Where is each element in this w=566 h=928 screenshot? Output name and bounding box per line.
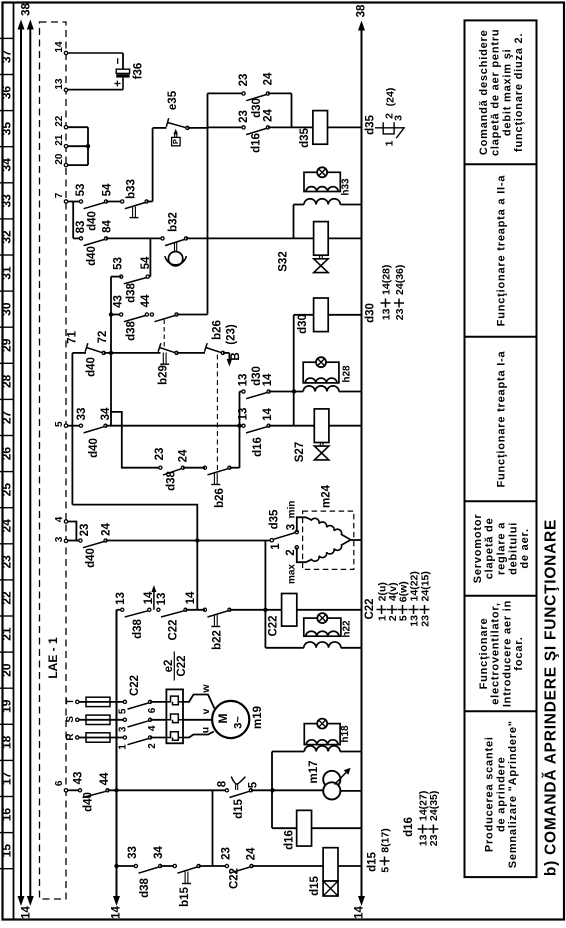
wire tap down to d38 53-54 [149, 238, 151, 276]
svg-text:de aer.: de aer. [519, 528, 531, 568]
svg-text:5: 5 [117, 708, 128, 714]
svg-text:d16: d16 [403, 817, 415, 837]
svg-text:24: 24 [101, 523, 113, 536]
svg-text:funcţionare diuza 2.: funcţionare diuza 2. [513, 33, 525, 152]
wire b33 to node [147, 201, 153, 203]
overload heater element [166, 732, 178, 741]
capacitor f36 [116, 69, 129, 73]
svg-text:37: 37 [0, 49, 14, 63]
overload heater element [166, 714, 178, 723]
servomotor winding lower [306, 540, 350, 562]
wire C22-14 to b22 [186, 609, 205, 611]
valve symbol S32 [319, 255, 321, 259]
svg-text:20: 20 [54, 153, 65, 165]
svg-text:3: 3 [392, 115, 404, 121]
svg-text:53: 53 [75, 184, 87, 197]
overload heater element [166, 696, 178, 705]
svg-text:clapetă de: clapetă de [484, 517, 496, 579]
wire f36 to terminal 13 [122, 78, 124, 90]
wire h33 to rail [340, 204, 361, 206]
riser d15rung-b15rung [212, 790, 214, 866]
valve symbol S27 [319, 443, 321, 447]
svg-text:13: 13 [380, 308, 392, 320]
contact d40 71-72 NC [102, 351, 105, 354]
description box divider [465, 500, 537, 502]
svg-text:LAE - 1: LAE - 1 [46, 637, 60, 679]
svg-text:13: 13 [115, 592, 127, 605]
svg-text:33: 33 [0, 194, 14, 208]
svg-text:S32: S32 [278, 251, 290, 271]
svg-text:b26: b26 [212, 320, 224, 340]
svg-text:44: 44 [99, 772, 111, 785]
time-delay contact d15 8-5 [225, 789, 228, 792]
contact d40 83-84 [79, 237, 82, 240]
arrow stub to line 14 [153, 591, 155, 610]
wire terminal 7 to contact d40 [68, 201, 81, 203]
svg-text:8: 8 [217, 780, 229, 787]
fuse phase S [79, 719, 86, 721]
relay coil d16 [297, 810, 312, 846]
svg-text:w: w [200, 684, 212, 694]
signal lamp unit h18 [304, 746, 340, 752]
wire d38 54 corner [148, 276, 151, 278]
wire terminal 3 to d40 23 [68, 540, 81, 542]
svg-text:h28: h28 [342, 365, 353, 383]
svg-text:5: 5 [379, 867, 391, 873]
svg-text:Servomotor: Servomotor [472, 514, 484, 584]
LAE-1 control unit dashed box [40, 22, 67, 899]
fuse phase R [79, 737, 86, 739]
svg-text:14: 14 [54, 41, 65, 53]
relay coil d35 [313, 111, 328, 145]
solenoid coil S32 [314, 222, 329, 256]
svg-text:23: 23 [428, 834, 440, 846]
svg-text:7: 7 [54, 192, 65, 198]
wire jog from bus to d38 23 [111, 412, 160, 468]
svg-text:h18: h18 [340, 725, 351, 743]
wire terminal 5 to d40 33 [68, 425, 81, 427]
pressure actuator link with arrow [174, 133, 176, 138]
contact b26 section 1 NC [221, 351, 224, 354]
svg-text:3: 3 [285, 524, 297, 530]
LAE-1 terminal 20 [64, 163, 67, 166]
svg-text:Introducere aer in: Introducere aer in [501, 600, 513, 707]
wire terminal 14 to f36 [68, 52, 123, 54]
svg-text:debit maxim şi: debit maxim şi [501, 48, 513, 136]
description box divider [465, 163, 537, 165]
svg-text:83: 83 [75, 221, 87, 234]
phase S supply terminal [76, 718, 79, 721]
svg-text:d40: d40 [86, 357, 98, 377]
contact d40 33-34 [79, 424, 82, 427]
svg-text:71: 71 [67, 331, 79, 344]
svg-text:24: 24 [262, 72, 274, 85]
svg-text:b32: b32 [168, 212, 180, 232]
svg-text:24: 24 [0, 519, 14, 533]
svg-text:84: 84 [102, 220, 114, 233]
svg-text:31: 31 [0, 266, 14, 280]
label e2/C22 fraction [173, 652, 175, 681]
LAE-1 terminal 6 [64, 789, 67, 792]
signal lamp unit h22 [304, 642, 341, 648]
svg-text:23: 23 [238, 110, 250, 123]
svg-text:b22: b22 [212, 630, 224, 650]
rail line L2 (columns 14-38) [29, 28, 31, 898]
wire b26 to riser [229, 467, 239, 469]
wire S27 to rail [329, 425, 362, 427]
wire e35 rung left [153, 127, 167, 129]
svg-text:(23): (23) [226, 324, 238, 345]
svg-text:26: 26 [0, 447, 14, 461]
wire to overload phase R [150, 737, 166, 739]
svg-text:3: 3 [117, 726, 128, 732]
contact b29 NC [175, 351, 178, 354]
svg-text:22: 22 [0, 591, 14, 605]
contact C22 23-24 [225, 864, 228, 867]
rail N (right return rail, 38 top / 14 bottom) [361, 26, 363, 898]
wire e35 to bus [187, 127, 208, 129]
wire h33 connector [293, 205, 295, 239]
svg-text:36: 36 [0, 86, 14, 100]
svg-text:d30: d30 [297, 314, 309, 334]
svg-text:44: 44 [140, 294, 152, 307]
svg-text:21: 21 [54, 134, 65, 146]
svg-text:B: B [230, 352, 242, 360]
fuse phase T [79, 701, 86, 703]
bus riser d30 coil - h28 - S27 [293, 315, 295, 426]
svg-text:4: 4 [147, 725, 158, 731]
LAE-1 terminal 7 [64, 200, 67, 203]
svg-text:v: v [200, 708, 212, 714]
svg-text:32: 32 [0, 230, 14, 244]
wire to d30 coil [294, 314, 314, 316]
contact d38 13-14 [121, 608, 124, 611]
svg-text:u: u [199, 727, 211, 733]
LAE-1 terminal 3 [64, 539, 67, 542]
svg-text:23: 23 [0, 555, 14, 569]
svg-text:5: 5 [248, 781, 260, 788]
svg-text:b) COMANDĂ APRINDERE ŞI FUNCŢI: b) COMANDĂ APRINDERE ŞI FUNCŢIONARE [543, 519, 560, 876]
wire d38 24 to b26 [183, 467, 205, 469]
svg-text:34: 34 [100, 407, 112, 420]
description box divider [465, 595, 537, 597]
wire branch y=504 [72, 505, 197, 610]
svg-text:3: 3 [54, 536, 65, 542]
svg-text:54: 54 [140, 256, 152, 269]
changeover contact d35 1-2-3 [270, 539, 273, 542]
svg-text:d40: d40 [85, 548, 97, 568]
wire d35-3 into winding [297, 517, 306, 532]
svg-text:b15: b15 [179, 886, 191, 906]
svg-text:53: 53 [112, 257, 124, 270]
svg-text:13: 13 [238, 408, 250, 421]
wire d30 23-24 rung [208, 92, 244, 94]
svg-text:P: P [171, 139, 180, 144]
wire d15 coil to rail [338, 865, 362, 867]
pressure sensor box P of e35 [172, 137, 181, 145]
wire d30 coil to rail [328, 314, 361, 316]
svg-text:S: S [65, 716, 76, 723]
wire b29 to b26 [177, 352, 206, 354]
svg-text:d30: d30 [365, 303, 377, 323]
svg-text:d40: d40 [88, 438, 100, 458]
wire terminal 6 to d40 43 [68, 789, 80, 791]
thermal overload relay e2 box [166, 689, 183, 743]
svg-text:Comandă deschidere: Comandă deschidere [478, 29, 490, 155]
svg-text:21: 21 [0, 627, 14, 641]
wire d16 coil to rail [312, 827, 362, 829]
svg-text:d15: d15 [233, 798, 245, 818]
LAE-1 terminal 21 [64, 145, 67, 148]
wire node to e35 rung [152, 128, 154, 202]
wire m17 to rail [340, 790, 361, 792]
LAE-1 terminal 14 [64, 51, 67, 54]
svg-text:20: 20 [0, 663, 14, 677]
svg-text:m24: m24 [321, 484, 333, 508]
bus left riser [110, 277, 112, 426]
wire h18 rung [272, 751, 304, 753]
svg-text:f36: f36 [133, 63, 145, 80]
wire e35 bus to d16 contact [208, 126, 244, 128]
svg-text:14: 14 [111, 906, 123, 919]
svg-text:2: 2 [285, 549, 297, 555]
contact b33 [121, 200, 124, 203]
contact C22 13-14 [157, 608, 160, 611]
svg-text:14: 14 [185, 591, 197, 604]
svg-text:13: 13 [238, 374, 250, 387]
svg-text:d15: d15 [367, 851, 379, 871]
wire bus to d38 33 [117, 865, 136, 867]
svg-text:h22: h22 [342, 620, 353, 638]
wire C22 coil to rail over h22 [297, 609, 362, 611]
svg-text:24: 24 [178, 449, 190, 462]
svg-text:d16: d16 [284, 830, 296, 850]
svg-text:23: 23 [394, 308, 406, 320]
wire b32 to S32 coil [186, 237, 314, 239]
contact d38 53-54 [120, 275, 123, 278]
svg-text:23: 23 [79, 524, 91, 537]
svg-text:m19: m19 [252, 706, 264, 729]
svg-text:C22: C22 [168, 619, 180, 640]
svg-text:−: − [112, 57, 124, 64]
contact b26 section 2 [203, 466, 206, 469]
pressure switch contact e35 [186, 126, 189, 129]
svg-text:24(15): 24(15) [419, 571, 431, 601]
svg-text:43: 43 [73, 772, 85, 785]
svg-text:h33: h33 [341, 178, 352, 196]
svg-text:5: 5 [54, 421, 65, 427]
phase R supply terminal [76, 736, 79, 739]
svg-text:15: 15 [0, 844, 14, 858]
svg-text:clapetă de aer pentru: clapetă de aer pentru [490, 29, 502, 156]
svg-text:d40: d40 [83, 792, 95, 812]
svg-text:C22: C22 [229, 868, 241, 889]
delay parachute symbol [235, 784, 237, 790]
wire S32 to rail [328, 237, 361, 239]
svg-text:d38: d38 [126, 320, 138, 340]
wire h18 to rail [340, 751, 361, 753]
svg-text:54: 54 [102, 183, 114, 196]
svg-text:43: 43 [112, 295, 124, 308]
svg-text:d35: d35 [299, 127, 311, 147]
svg-text:C22: C22 [129, 675, 141, 696]
svg-text:1: 1 [270, 543, 282, 550]
svg-text:d30: d30 [251, 98, 263, 118]
contact d30 13-14 [242, 390, 245, 393]
svg-text:S27: S27 [294, 442, 306, 462]
wire d35-2 into winding [297, 547, 306, 562]
svg-text:23: 23 [238, 74, 250, 87]
description box divider [465, 710, 537, 712]
contact b15 [173, 864, 176, 867]
function description boxes frame [465, 20, 537, 877]
wire h22 primary to rail [265, 647, 303, 649]
wire to overload phase T [150, 701, 166, 703]
svg-text:22: 22 [54, 115, 65, 127]
wire d35 coil to rail [328, 126, 362, 128]
svg-text:debitului: debitului [507, 522, 519, 575]
contact d16 23-24 [242, 126, 245, 129]
wire strap terminals 20-21-22 [68, 126, 88, 128]
svg-text:24(35): 24(35) [428, 791, 440, 821]
LAE-1 terminal 4 [64, 520, 67, 523]
svg-text:2: 2 [147, 743, 158, 749]
svg-text:d38: d38 [139, 877, 151, 897]
svg-text:d40: d40 [87, 211, 99, 231]
bus node e35 output [207, 93, 209, 314]
contactor C22 main contact 3-4 [123, 718, 126, 721]
svg-text:d30: d30 [251, 366, 263, 386]
svg-text:d38: d38 [126, 282, 138, 302]
bus line 14 (control bus) [116, 610, 118, 898]
svg-text:T: T [65, 698, 76, 704]
svg-text:24(36): 24(36) [394, 265, 406, 295]
svg-text:Funcţionare: Funcţionare [478, 618, 490, 690]
signal lamp unit h28 [303, 386, 339, 392]
motor wires into m19 [183, 695, 215, 709]
wire b22 to C22 coil [229, 609, 281, 611]
wire d40 34 to d16 13 [106, 425, 244, 427]
contact d16 13-14 [242, 424, 245, 427]
svg-text:b33: b33 [126, 179, 138, 199]
svg-text:14(28): 14(28) [380, 265, 392, 295]
svg-text:23: 23 [220, 847, 232, 860]
LAE-1 terminal 5 [64, 424, 67, 427]
wire to overload phase S [150, 719, 166, 721]
svg-text:1: 1 [117, 744, 128, 750]
svg-text:28: 28 [0, 374, 14, 388]
wire C22 24 to d15 coil [252, 865, 324, 867]
contact d38 43-44 [120, 313, 123, 316]
auxiliary contact b29 second section [150, 313, 153, 316]
wire riser terminal 5 up [71, 353, 73, 505]
svg-text:14: 14 [262, 408, 274, 421]
svg-text:e35: e35 [167, 90, 179, 110]
svg-text:35: 35 [0, 122, 14, 136]
LAE-1 terminal 22 [64, 126, 67, 129]
svg-text:13: 13 [156, 593, 168, 606]
svg-text:33: 33 [76, 408, 88, 421]
wire h28 to rail [339, 391, 362, 393]
wire d40 72 to b29 [104, 352, 161, 354]
column scale strip [13, 2, 15, 920]
svg-text:14: 14 [354, 906, 366, 919]
wire d16 14 to S27 coil [269, 425, 314, 427]
svg-text:focar.: focar. [513, 636, 525, 670]
svg-text:d38: d38 [132, 618, 144, 638]
wire d30 14 to junction [269, 391, 304, 393]
svg-text:1: 1 [383, 140, 395, 146]
svg-text:72: 72 [97, 331, 109, 344]
svg-text:27: 27 [0, 410, 14, 424]
description box divider [465, 336, 537, 338]
wire d30 24 to loop corner [268, 92, 292, 94]
wire to d16 coil [272, 827, 297, 829]
solenoid coil S27 [314, 409, 329, 443]
svg-text:19: 19 [0, 699, 14, 713]
svg-text:34: 34 [0, 158, 14, 172]
motor m19 [212, 701, 249, 738]
rail line L1 (columns 14-38) [20, 28, 22, 898]
mechanical link dashed b26 [216, 355, 218, 473]
svg-text:38: 38 [356, 4, 368, 17]
svg-text:max: max [287, 564, 298, 584]
svg-text:d15: d15 [309, 875, 321, 895]
svg-text:16: 16 [0, 808, 14, 822]
LAE-1 terminal 13 [64, 88, 67, 91]
svg-text:30: 30 [0, 302, 14, 316]
ignition transformer m17 [323, 771, 340, 788]
phase T supply terminal [76, 700, 79, 703]
svg-text:d38: d38 [166, 470, 178, 490]
svg-text:reglare a: reglare a [495, 522, 507, 575]
servomotor im24 dashed box [303, 511, 354, 569]
time relay coil d15 [323, 848, 338, 881]
contact d38 33-34 [134, 864, 137, 867]
svg-text:3~: 3~ [232, 716, 244, 729]
wire bus top corner to d38 13 [117, 609, 123, 611]
contact d40 43-44 [78, 789, 81, 792]
svg-text:14: 14 [21, 906, 33, 919]
svg-text:b29: b29 [158, 365, 170, 385]
svg-text:29: 29 [0, 338, 14, 352]
wire bus to d38 43 [111, 314, 121, 316]
riser d30-13 [239, 392, 241, 468]
svg-text:Semnalizare "Aprindere": Semnalizare "Aprindere" [507, 720, 519, 868]
signal lamp unit h33 [304, 199, 340, 205]
wire to bus corner [177, 314, 208, 316]
contactor coil C22 [282, 594, 297, 627]
wire d15 to m17 [251, 789, 323, 791]
svg-text:18: 18 [0, 735, 14, 749]
svg-text:e2: e2 [163, 660, 175, 673]
svg-text:24: 24 [262, 109, 274, 122]
svg-text:d35: d35 [269, 509, 281, 529]
svg-text:34: 34 [153, 846, 165, 859]
contact d40 53-54 [79, 200, 82, 203]
svg-text:6: 6 [54, 780, 65, 786]
wire to d40 83 [73, 237, 81, 239]
wire d40 84 to b32 [106, 237, 163, 239]
svg-text:14: 14 [262, 373, 274, 386]
svg-text:M: M [216, 714, 230, 724]
riser d35rung-C22rung-h22 [264, 541, 266, 648]
servomotor winding upper [306, 517, 350, 539]
wire to d40 71-72 [72, 352, 86, 354]
contactor C22 main contact 5-6 [123, 700, 126, 703]
svg-text:25: 25 [0, 483, 14, 497]
svg-text:R: R [65, 733, 76, 741]
